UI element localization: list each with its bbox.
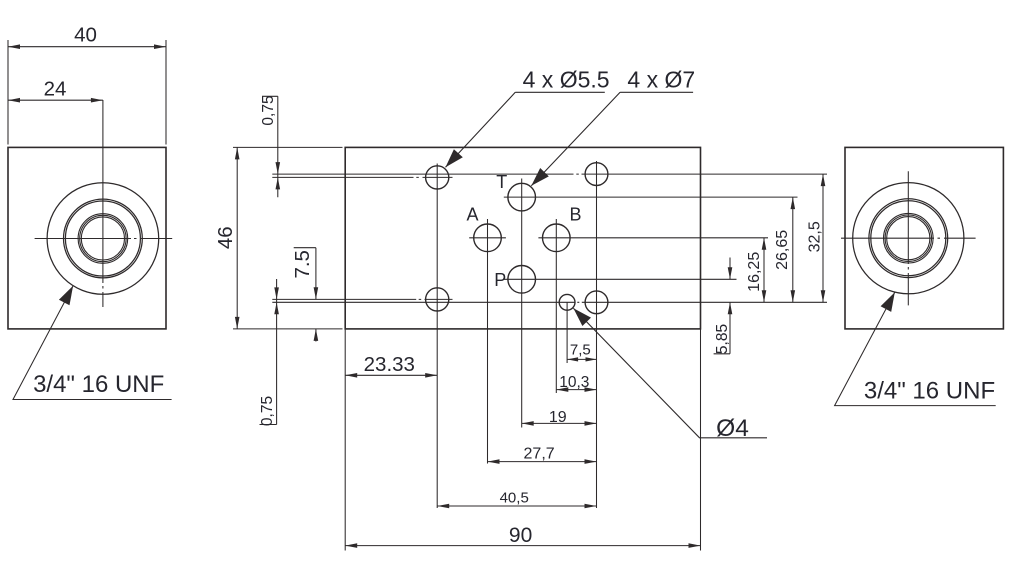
dim 27,7: dimension line	[488, 461, 597, 463]
dim 40,5: dimension line	[437, 505, 596, 507]
svg-text:3/4" 16 UNF: 3/4" 16 UNF	[864, 378, 995, 405]
svg-text:23.33: 23.33	[364, 353, 415, 376]
svg-text:B: B	[569, 204, 581, 224]
dim 40: arrowheads	[8, 44, 20, 49]
dim 24: arrowheads	[8, 98, 20, 103]
left UNF leader line	[13, 286, 172, 400]
T/P column line	[521, 179, 523, 428]
center block (top view) outline	[345, 147, 700, 329]
svg-text:16,25: 16,25	[746, 252, 763, 292]
right port horizontal centerline	[841, 237, 976, 239]
svg-text:4 x Ø7: 4 x Ø7	[627, 66, 695, 92]
dim 40,5: arrowheads	[437, 504, 449, 509]
svg-text:40: 40	[74, 24, 97, 47]
port hole T	[508, 183, 536, 211]
dim 0,75 top: arrowheads	[276, 162, 281, 174]
small hole (diameter 4)	[559, 294, 575, 310]
dim 16,25: arrowheads	[762, 238, 767, 250]
svg-text:10,3: 10,3	[559, 374, 589, 391]
right UNF leader line	[835, 292, 996, 405]
left port concentric circles (3/4" 16 UNF)	[47, 183, 159, 295]
B hole column line	[555, 219, 557, 393]
dim 7,5: arrowheads	[567, 357, 578, 361]
dim 7,5: dimension line	[567, 358, 596, 360]
port hole A	[474, 224, 502, 252]
dim 90: arrowheads	[345, 543, 357, 548]
svg-text:Ø4: Ø4	[716, 415, 749, 442]
svg-text:3/4" 16 UNF: 3/4" 16 UNF	[33, 371, 164, 398]
dim 90: dimension line	[345, 545, 700, 547]
svg-text:7.5: 7.5	[291, 250, 314, 279]
left port horizontal centerline	[35, 238, 173, 240]
dim 16,25: dimension line	[763, 238, 765, 302]
dim 23.33: extension line below block left edge	[344, 329, 346, 551]
mounting hole bottom-right	[585, 291, 608, 314]
dim 46: extension lines	[233, 147, 343, 329]
label O4 leader	[573, 308, 767, 438]
dim 0,75 top: line and tick	[262, 96, 278, 197]
right port concentric circles (3/4" 16 UNF)	[853, 183, 964, 294]
svg-text:P: P	[494, 270, 506, 290]
label 4xO5.5 arrowhead	[446, 149, 463, 167]
dim 27,7: arrowheads	[488, 459, 500, 464]
top row dash-dot centerline (through left mounting hole)	[272, 176, 452, 178]
small hole column line	[566, 302, 568, 363]
dim 10,3: dimension line	[556, 389, 596, 391]
svg-text:46: 46	[214, 226, 237, 249]
label 4xO5.5 leader	[446, 92, 605, 167]
left mounting hole column line	[436, 164, 438, 509]
svg-text:40,5: 40,5	[500, 490, 529, 507]
bottom row dash-dot centerline (through left mounting hole)	[272, 298, 452, 300]
dim 46: dimension line	[236, 147, 238, 329]
svg-text:5,85: 5,85	[714, 324, 731, 354]
svg-text:A: A	[466, 204, 478, 224]
left UNF leader arrowhead	[59, 286, 73, 306]
dim 40: extension lines	[8, 40, 166, 145]
svg-text:27,7: 27,7	[524, 446, 555, 463]
svg-text:32,5: 32,5	[807, 221, 824, 252]
svg-text:0,75: 0,75	[260, 95, 277, 125]
A hole column line	[487, 219, 489, 464]
svg-text:4 x Ø5.5: 4 x Ø5.5	[523, 66, 610, 92]
dim 90: extension line below block right edge	[700, 329, 702, 551]
port hole B	[543, 224, 571, 252]
left port vertical centerline / 24-dim extension	[102, 100, 104, 307]
A hole crosshair horizontal	[469, 237, 506, 239]
T row centerline	[504, 196, 798, 198]
svg-text:24: 24	[44, 77, 67, 100]
dim 23.33: arrowheads	[345, 373, 357, 378]
mounting hole top-right	[585, 163, 608, 186]
svg-text:90: 90	[509, 524, 532, 547]
mounting hole top-left	[426, 166, 449, 189]
dim 40: dimension line	[8, 46, 166, 48]
label 4xO7 arrowhead	[531, 168, 549, 186]
P row centerline	[504, 278, 737, 280]
port hole P	[508, 266, 536, 294]
dim 10,3: arrowheads	[556, 387, 568, 392]
svg-text:0,75: 0,75	[259, 396, 276, 426]
dim 19: dimension line	[522, 422, 597, 424]
svg-text:26,65: 26,65	[774, 230, 791, 270]
dim 26,65: arrowheads	[791, 197, 796, 209]
dim 32,5: arrowheads	[821, 174, 826, 186]
dim 24: dimension line	[8, 99, 103, 101]
dim 0,75 bottom: arrowheads	[274, 287, 279, 299]
dim 23.33: dimension line	[345, 374, 437, 376]
right UNF leader arrowhead	[881, 292, 895, 312]
top row solid line (through right mounting holes)	[272, 173, 827, 175]
dim 0,75 bottom: line and tick	[260, 279, 277, 425]
right mounting hole column line	[596, 161, 598, 508]
dim 26,65: dimension line	[792, 197, 794, 302]
dim 46: arrowheads	[235, 147, 240, 159]
svg-text:19: 19	[549, 409, 567, 426]
bottom row solid line (through right holes)	[272, 301, 827, 303]
label O4 arrowhead	[573, 308, 591, 326]
mounting hole bottom-left	[426, 288, 449, 311]
dim 7.5: arrowheads	[314, 287, 319, 299]
svg-text:7,5: 7,5	[570, 342, 591, 359]
dim 5,85: lines and tick	[714, 258, 730, 354]
dim 32,5: dimension line	[822, 174, 824, 302]
dim 5,85: arrowheads	[728, 267, 733, 279]
svg-text:T: T	[496, 172, 507, 192]
right port vertical centerline	[907, 171, 909, 305]
dim 7.5: line and tick	[294, 248, 316, 342]
right end-view block outline	[845, 147, 1003, 329]
left end-view block outline	[8, 147, 166, 329]
dim 19: arrowheads	[522, 421, 534, 426]
B row centerline	[538, 237, 768, 239]
label 4xO7 leader	[531, 92, 693, 186]
